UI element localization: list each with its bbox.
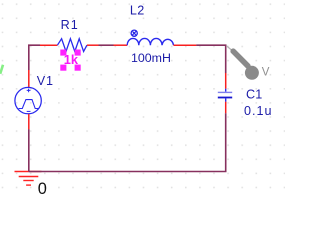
svg-text:100mH: 100mH xyxy=(131,51,171,65)
capacitor C1 xyxy=(218,73,232,113)
wire top-left corner xyxy=(29,45,40,70)
svg-text:V1: V1 xyxy=(37,74,54,88)
wire right-bottom corner and bottom run xyxy=(29,113,226,171)
ground 0 xyxy=(15,172,42,186)
wire top-right corner xyxy=(196,45,225,73)
wire between R1 and L2 xyxy=(99,44,114,46)
svg-text:C1: C1 xyxy=(246,88,263,102)
resistor R1 xyxy=(40,39,99,52)
voltage source V1 (VPULSE) xyxy=(15,70,41,129)
svg-text:V: V xyxy=(262,67,270,79)
inductor L2 xyxy=(114,38,197,45)
svg-text:R1: R1 xyxy=(61,18,79,32)
screen artifact (green cursor fragment at left edge) xyxy=(0,65,3,74)
svg-text:0: 0 xyxy=(38,180,47,198)
voltage probe xyxy=(226,46,259,80)
value 1k (selected, with selection handles) xyxy=(60,50,80,71)
wire left-bottom vertical xyxy=(28,129,30,171)
svg-text:0.1u: 0.1u xyxy=(244,104,273,118)
svg-text:L2: L2 xyxy=(130,4,145,18)
svg-text:1k: 1k xyxy=(64,52,79,67)
pin 1 marker of L2 xyxy=(131,30,137,36)
